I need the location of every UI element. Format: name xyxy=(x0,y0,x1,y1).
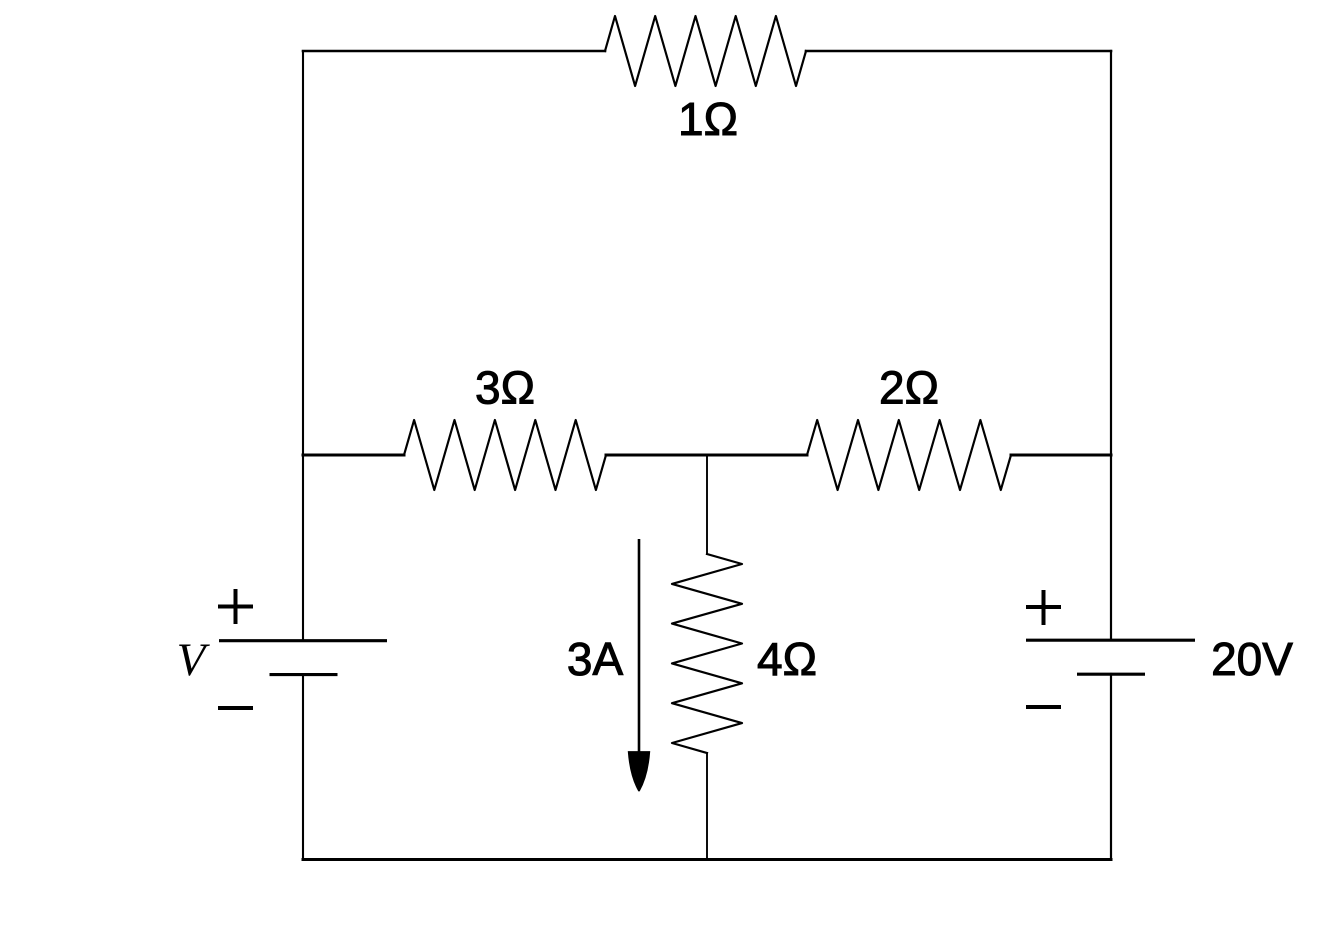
svg-text:2Ω: 2Ω xyxy=(879,362,939,414)
svg-text:4Ω: 4Ω xyxy=(757,633,817,685)
svg-text:3Ω: 3Ω xyxy=(475,362,535,414)
svg-text:20V: 20V xyxy=(1211,633,1293,685)
svg-text:3A: 3A xyxy=(567,633,624,685)
svg-text:1Ω: 1Ω xyxy=(678,93,738,145)
